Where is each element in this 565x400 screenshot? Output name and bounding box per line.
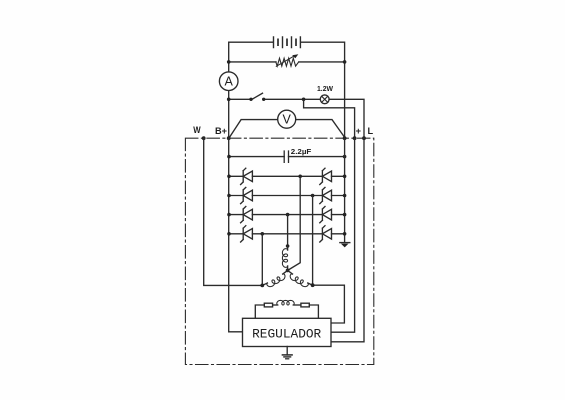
wire: phase tap row2 down bbox=[312, 196, 314, 286]
voltmeter V bbox=[278, 110, 296, 128]
capacitor C1 2.2uF bbox=[229, 151, 345, 162]
battery B1 bbox=[274, 37, 301, 48]
alternator housing dash-dot border bbox=[185, 138, 373, 364]
wire brush to coil bbox=[273, 304, 278, 306]
wire: B+ rail down to regulator bbox=[229, 138, 243, 332]
svg-text:+: + bbox=[356, 126, 361, 136]
ground regulator bbox=[282, 355, 292, 359]
svg-text:REGULADOR: REGULADOR bbox=[252, 327, 321, 342]
junction dot switch right bbox=[262, 98, 265, 101]
diode D8 (right row4) bbox=[320, 226, 332, 242]
diode D1 (left row1) bbox=[241, 168, 253, 184]
diode row 2 wires bbox=[229, 195, 345, 197]
junction dots row2 bbox=[227, 194, 231, 198]
ground rectifier bbox=[340, 243, 350, 248]
node right phase bbox=[311, 283, 315, 287]
node left phase bbox=[260, 284, 264, 288]
node rectifier + corner bbox=[343, 136, 347, 140]
wire: right rectifier rail bbox=[344, 138, 346, 242]
junction dot cap left bbox=[227, 155, 231, 159]
diode row 3 wires bbox=[229, 214, 345, 216]
junction dot switch left bbox=[249, 98, 252, 101]
diode row 1 wires bbox=[229, 175, 345, 177]
junction dot rheostat right bbox=[343, 60, 347, 64]
rheostat R1 bbox=[276, 54, 299, 66]
wire: phase tap row4 down bbox=[261, 234, 263, 286]
junction dot cap right bbox=[343, 155, 347, 159]
diode D6 (right row2) bbox=[320, 187, 332, 203]
terminal B+ dot bbox=[227, 136, 231, 140]
node branch to + bbox=[302, 98, 306, 102]
voltmeter trapezoid housing top bbox=[230, 120, 345, 138]
wire: + terminal down to regulator bbox=[331, 138, 355, 332]
brush right bbox=[301, 303, 309, 307]
wire: rheostat row bbox=[229, 61, 345, 63]
wire: neutral tap row1 to star bbox=[288, 176, 301, 270]
wire: regulator ground stub bbox=[286, 347, 288, 355]
node star point bbox=[286, 269, 290, 273]
wire: right phase to regulator bbox=[313, 285, 345, 323]
lamp L1 1.2W bbox=[320, 95, 329, 104]
rotor field coil bbox=[277, 300, 294, 305]
diode D2 (left row2) bbox=[241, 187, 253, 203]
svg-text:W: W bbox=[193, 125, 201, 135]
switch S1 bbox=[252, 93, 263, 99]
wire: switch row bbox=[229, 98, 321, 100]
stator winding left coil bbox=[283, 270, 288, 274]
ammeter A bbox=[219, 72, 238, 91]
wire: L terminal down to regulator bbox=[331, 138, 364, 342]
node stator coil top bbox=[286, 244, 290, 248]
wire coil to brush bbox=[294, 304, 301, 306]
brush left bbox=[264, 303, 272, 307]
wire: switch node to + terminal bbox=[304, 99, 355, 138]
svg-text:1.2W: 1.2W bbox=[317, 84, 333, 93]
stator winding vertical coil bbox=[287, 246, 289, 250]
wire: phase tap row3 down bbox=[287, 215, 289, 246]
field circuit left stub bbox=[255, 305, 264, 318]
diode D3 (left row3) bbox=[241, 207, 253, 223]
svg-text:2.2µF: 2.2µF bbox=[291, 147, 312, 156]
diode D5 (right row1) bbox=[320, 168, 332, 184]
field circuit right stub bbox=[309, 305, 318, 318]
terminal + dot bbox=[353, 136, 357, 140]
svg-text:A: A bbox=[225, 75, 234, 89]
wire: lamp to L terminal bbox=[329, 99, 364, 138]
regulator box bbox=[243, 318, 332, 346]
diode D7 (right row3) bbox=[320, 207, 332, 223]
diode row 4 wires bbox=[229, 233, 345, 235]
terminal W dot bbox=[202, 136, 206, 140]
wire: top battery loop bbox=[229, 42, 345, 138]
diode D4 (left row4) bbox=[241, 226, 253, 242]
junction dots row3 bbox=[227, 213, 231, 217]
junction dots row1 bbox=[227, 175, 231, 179]
junction dot rheostat left bbox=[227, 60, 231, 64]
wire: left phase to W bbox=[204, 138, 263, 285]
svg-text:V: V bbox=[283, 113, 292, 127]
svg-text:L: L bbox=[367, 126, 373, 136]
junction dot at lamp branch bbox=[227, 98, 231, 102]
svg-text:B+: B+ bbox=[215, 126, 227, 136]
stator winding right coil bbox=[288, 270, 293, 274]
junction dots row4 bbox=[227, 232, 231, 236]
terminal L dot bbox=[362, 136, 366, 140]
